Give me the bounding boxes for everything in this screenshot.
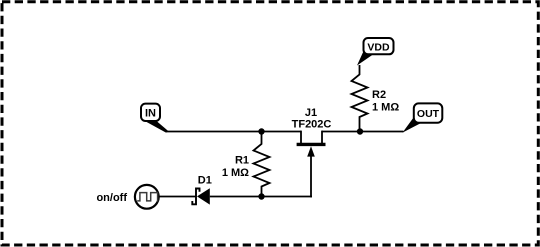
- svg-text:J1: J1: [305, 107, 317, 119]
- transistor J1 (JFET): [292, 107, 332, 197]
- junction at R2 bottom: [357, 128, 363, 134]
- svg-text:IN: IN: [145, 108, 156, 120]
- source V1 square-wave (on/off clock): [135, 185, 159, 209]
- svg-text:TF202C: TF202C: [292, 118, 332, 130]
- diode D1 (Schottky): [192, 175, 212, 205]
- svg-text:D1: D1: [198, 175, 212, 187]
- junction at R1 top: [258, 128, 264, 134]
- junction at R1 bottom: [258, 193, 264, 199]
- node OUT: [403, 103, 443, 132]
- node IN: [141, 104, 169, 133]
- wire gate run J1 to D1: [210, 196, 312, 198]
- svg-text:on/off: on/off: [96, 192, 127, 204]
- svg-text:OUT: OUT: [417, 108, 440, 120]
- wire J1 drain to OUT: [322, 131, 404, 133]
- resistor R1: [222, 132, 270, 197]
- svg-text:R1: R1: [235, 155, 249, 167]
- svg-text:R2: R2: [372, 89, 386, 101]
- wire input node IN to J1 source: [167, 131, 302, 133]
- svg-text:1 MΩ: 1 MΩ: [222, 167, 249, 179]
- svg-text:VDD: VDD: [367, 41, 390, 53]
- resistor R2: [352, 65, 400, 132]
- wire D1 to source: [159, 196, 197, 198]
- node VDD: [357, 38, 394, 66]
- svg-text:1 MΩ: 1 MΩ: [372, 101, 399, 113]
- label on/off: [96, 192, 127, 204]
